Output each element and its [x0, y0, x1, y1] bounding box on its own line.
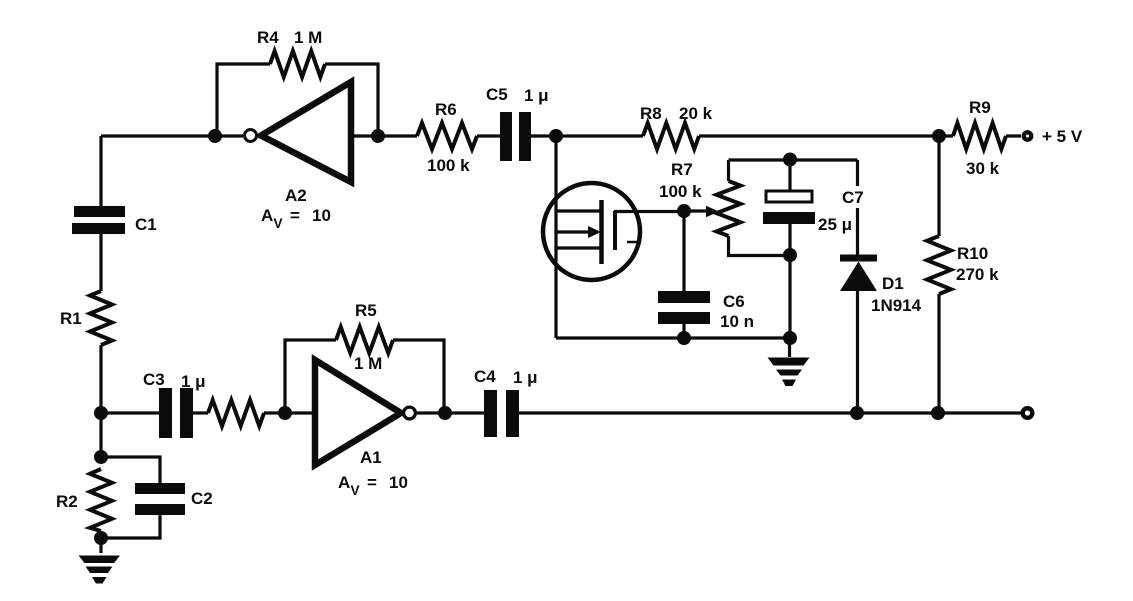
capacitor C7 plus plate — [766, 191, 812, 202]
svg-text:D1: D1 — [882, 274, 904, 293]
wire C3 to R3 — [193, 411, 208, 414]
svg-text:C3: C3 — [143, 370, 165, 389]
node R9/R10 junction — [932, 129, 946, 143]
capacitor C4 — [484, 390, 519, 437]
wire R6 to C5 — [477, 134, 500, 137]
node drain junction — [677, 204, 691, 218]
capacitor C6 — [658, 291, 710, 324]
wire D1 cathode lead — [856, 160, 859, 255]
wire R8 to R9 node — [699, 134, 953, 137]
wire A2 feedback left — [217, 64, 270, 136]
capacitor C5 — [500, 112, 531, 161]
svg-text:+ 5 V: + 5 V — [1042, 127, 1083, 146]
resistor R8 — [643, 123, 699, 149]
svg-text:R2: R2 — [56, 492, 78, 511]
svg-text:V: V — [274, 216, 283, 231]
Q1 gate line lower — [556, 246, 601, 249]
svg-text:100 k: 100 k — [659, 182, 702, 201]
op-amp A1 — [315, 360, 401, 465]
svg-text:1 μ: 1 μ — [524, 86, 549, 105]
svg-text:A2: A2 — [285, 186, 307, 205]
svg-text:C7: C7 — [842, 188, 864, 207]
node R10 bottom junction — [931, 406, 945, 420]
wire C5 to R8 — [531, 134, 643, 137]
svg-text:20 k: 20 k — [679, 104, 713, 123]
wire MOSFET source rail — [554, 136, 557, 338]
svg-text:R4: R4 — [257, 28, 279, 47]
svg-text:1N914: 1N914 — [871, 296, 922, 315]
Q1 drain bar — [613, 211, 617, 250]
svg-text:C2: C2 — [191, 489, 213, 508]
svg-text:R1: R1 — [60, 309, 82, 328]
node D1 bottom junction — [850, 406, 864, 420]
ground (left) — [79, 556, 121, 584]
wire C7 top stub — [788, 160, 791, 191]
node C2 top junction — [94, 450, 108, 464]
svg-text:C4: C4 — [474, 367, 496, 386]
wire R2 to ground — [99, 531, 102, 553]
capacitor C3 — [159, 388, 193, 438]
wire C6 bottom stub — [682, 324, 685, 338]
svg-text:R10: R10 — [957, 244, 988, 263]
svg-text:1 μ: 1 μ — [513, 368, 538, 387]
wire wiper arrow to R7 — [684, 209, 708, 212]
node bottom rail left junction — [94, 406, 108, 420]
svg-text:1 M: 1 M — [354, 354, 382, 373]
node A1 input junction — [278, 406, 292, 420]
wire C6 top stub — [682, 211, 685, 291]
wire R10 top lead — [937, 136, 940, 236]
resistor R1 — [90, 291, 112, 345]
node C7 bottom junction — [783, 248, 797, 262]
wire R10 bottom lead — [937, 294, 940, 413]
wire C2 branch bottom — [101, 515, 160, 538]
svg-text:A1: A1 — [360, 448, 382, 467]
resistor R5 — [336, 327, 393, 353]
node C7 top junction — [783, 153, 797, 167]
diode D1 — [840, 255, 877, 292]
node ground junction — [783, 331, 797, 345]
wire R9 to +5V terminal — [1006, 134, 1021, 137]
node A2 feedback junction — [371, 129, 385, 143]
node C2 bottom junction — [94, 531, 108, 545]
svg-text:R7: R7 — [671, 160, 693, 179]
svg-text:100 k: 100 k — [427, 156, 470, 175]
resistor R3 (unlabeled) — [208, 400, 264, 426]
wire A1 feedback left — [285, 340, 336, 413]
resistor R10 — [927, 236, 951, 294]
node A2 input junction — [208, 129, 222, 143]
node C6 bottom junction — [677, 331, 691, 345]
svg-text:30 k: 30 k — [966, 159, 1000, 178]
svg-text:10: 10 — [389, 473, 408, 492]
wire Q1 bottom rail — [556, 336, 790, 339]
wire bottom rail long — [519, 411, 1021, 414]
wire R7 bottom lead — [729, 236, 791, 256]
capacitor C7 minus plate — [763, 212, 815, 224]
wire sub rail top — [729, 158, 858, 161]
svg-text:10: 10 — [312, 206, 331, 225]
svg-text:=: = — [367, 473, 377, 492]
wire A2 output to R6 — [351, 134, 417, 137]
wire C2 branch top — [101, 457, 160, 483]
node A1 output junction — [438, 406, 452, 420]
op-amp A2 — [261, 82, 351, 182]
svg-text:=: = — [290, 206, 300, 225]
svg-text:10 n: 10 n — [720, 312, 754, 331]
wire bottom rail to C3 — [101, 411, 159, 414]
wire A2 feedback right — [325, 64, 378, 136]
svg-text:A: A — [338, 473, 350, 492]
output terminal — [1023, 408, 1033, 418]
wire R3 to A1 input — [264, 411, 315, 414]
resistor R9 — [953, 123, 1006, 149]
resistor R4 — [270, 51, 325, 77]
svg-text:R9: R9 — [969, 98, 991, 117]
svg-text:C1: C1 — [135, 215, 157, 234]
wire ground stub (middle) — [788, 338, 791, 357]
svg-text:V: V — [351, 483, 360, 498]
A2 output bubble — [245, 130, 257, 142]
resistor R7 (potentiometer) — [717, 181, 741, 236]
Q1 gate line upper — [556, 209, 601, 212]
transistor Q1 (MOSFET) body — [543, 183, 640, 280]
svg-text:R8: R8 — [640, 104, 662, 123]
capacitor C2 — [135, 483, 185, 515]
resistor R6 — [417, 123, 477, 149]
ground (middle) — [768, 358, 810, 387]
wire C7 bottom stub — [788, 224, 791, 338]
svg-text:A: A — [261, 206, 273, 225]
resistor R2 — [90, 469, 112, 531]
+5V terminal — [1024, 132, 1031, 139]
svg-text:C6: C6 — [723, 292, 745, 311]
wire C1 to R1 — [99, 234, 102, 291]
svg-text:C5: C5 — [486, 85, 508, 104]
wire D1 anode lead — [856, 291, 859, 413]
Q1 substrate arrow — [556, 230, 589, 233]
A1 output bubble — [404, 407, 416, 419]
wire R1 to bottom rail — [99, 345, 102, 457]
wire Q1 drain to node — [614, 210, 684, 213]
wire top rail left segment — [101, 134, 243, 137]
wire left rail top — [99, 136, 102, 206]
svg-text:25 μ: 25 μ — [818, 215, 852, 234]
capacitor C1 — [72, 206, 125, 234]
svg-text:R5: R5 — [355, 301, 377, 320]
svg-text:R6: R6 — [435, 100, 457, 119]
wire R7 top lead — [727, 160, 730, 181]
wire A1 feedback right — [393, 340, 444, 413]
svg-text:1 μ: 1 μ — [181, 372, 206, 391]
Q1 source stub — [627, 241, 641, 244]
svg-text:270 k: 270 k — [956, 265, 999, 284]
Q1 channel bar — [599, 200, 604, 264]
svg-text:1 M: 1 M — [294, 28, 322, 47]
node C5/R8 junction — [549, 129, 563, 143]
wire A1 bubble to C4 — [417, 411, 484, 414]
